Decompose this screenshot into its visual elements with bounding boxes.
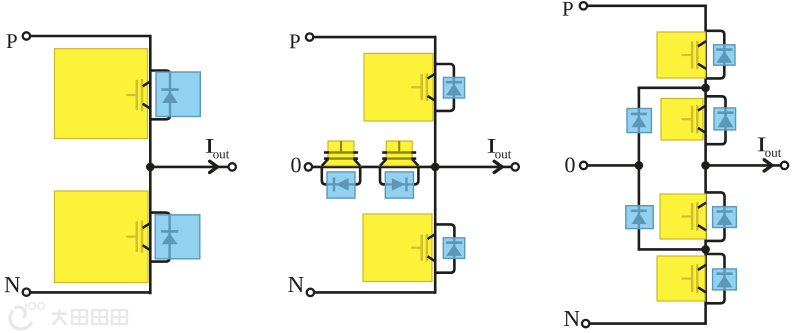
node clamp junction (right circuit) <box>635 161 644 170</box>
wire main vertical leg (left circuit) <box>149 35 152 295</box>
diode bracket D7 (right circuit) <box>706 31 725 79</box>
node N terminal label (right circuit) <box>564 311 579 326</box>
node junction Q9/Q10 (right circuit) <box>701 245 710 254</box>
terminal 0 (middle circuit) <box>305 163 312 170</box>
IGBT module Q9 yellow box (right circuit) <box>660 194 706 239</box>
diode bracket D6 (middle circuit) <box>380 167 418 185</box>
watermark logo (decorative) <box>10 303 127 329</box>
clamp diode D6 blue box (middle circuit) <box>385 172 413 198</box>
anti-parallel diode D9 blue box (right circuit) <box>713 207 737 228</box>
IGBT module Q8 yellow box (right circuit) <box>661 99 706 141</box>
clamp IGBT Q5 horizontal (middle circuit) <box>380 141 418 166</box>
output arrow head (right circuit) <box>764 160 772 171</box>
node output junction (right circuit) <box>701 161 710 170</box>
IGBT module Q2 yellow box (left circuit) <box>55 191 151 283</box>
terminal Iout (right circuit) <box>781 162 788 169</box>
IGBT module Q10 yellow box (right circuit) <box>657 256 706 301</box>
wire clamp branch lower (right circuit) <box>638 164 706 249</box>
wire main vertical leg (middle circuit) <box>434 36 437 294</box>
wire main vertical leg (right circuit) <box>704 5 707 325</box>
anti-parallel diode D8 blue box (right circuit) <box>714 108 736 130</box>
diode bracket D9 (right circuit) <box>706 192 725 241</box>
terminal N (left circuit) <box>23 289 30 296</box>
wire N rail (left circuit) <box>30 291 150 294</box>
clamp diode D11 blue box (right circuit) <box>627 109 651 133</box>
terminal 0 (right circuit) <box>580 162 587 169</box>
node N terminal label (left circuit) <box>5 277 20 292</box>
IGBT module Q1 yellow box (left circuit) <box>55 49 151 139</box>
wire N rail (middle circuit) <box>314 291 435 294</box>
anti-parallel diode D7 blue box (right circuit) <box>714 45 735 65</box>
label Iout (left circuit) <box>206 139 230 158</box>
wire output (middle circuit) <box>435 166 512 169</box>
terminal Iout (middle circuit) <box>512 163 519 170</box>
clamp diode D12 blue box (right circuit) <box>626 206 653 229</box>
label Iout (middle circuit) <box>488 139 512 158</box>
node output junction (middle circuit) <box>431 163 440 172</box>
node P terminal label (middle circuit) <box>290 34 300 48</box>
wire P rail to top (right circuit) <box>587 5 706 8</box>
wire output (left circuit) <box>150 166 228 169</box>
diode bracket D10 (right circuit) <box>706 254 725 303</box>
anti-parallel diode D10 blue box (right circuit) <box>713 269 737 290</box>
node P terminal label (right circuit) <box>563 2 573 16</box>
terminal N (right circuit) <box>582 320 589 327</box>
IGBT module Q7 yellow box (right circuit) <box>657 32 706 78</box>
diode bracket D1 (left circuit) <box>150 71 170 120</box>
terminal P (right circuit) <box>580 2 587 9</box>
diode bracket D3 (middle circuit) <box>435 64 454 111</box>
diode bracket D2 (left circuit) <box>150 213 169 262</box>
wire P rail to top (left circuit) <box>30 35 150 38</box>
clamp diode D5 blue box (middle circuit) <box>327 172 355 198</box>
node junction Q7/Q8 (right circuit) <box>701 84 710 93</box>
terminal N (middle circuit) <box>307 289 314 296</box>
terminal P (left circuit) <box>23 32 30 39</box>
IGBT module Q3 yellow box (middle circuit) <box>364 53 436 121</box>
terminal Iout (left circuit) <box>229 163 236 170</box>
node 0 terminal label (right circuit) <box>565 157 574 172</box>
wire clamp branch upper (right circuit) <box>638 87 706 167</box>
diode bracket D4 (middle circuit) <box>435 224 454 272</box>
wire 0 rail (middle circuit) <box>312 166 435 169</box>
label Iout (right circuit) <box>758 138 782 157</box>
node N terminal label (middle circuit) <box>288 277 303 292</box>
wire N rail (right circuit) <box>589 322 705 325</box>
output arrow head (left circuit) <box>210 161 218 172</box>
terminal P (middle circuit) <box>306 33 313 40</box>
diode bracket D5 (middle circuit) <box>322 167 360 185</box>
node P terminal label (left circuit) <box>7 34 17 48</box>
IGBT module Q6 yellow box (middle circuit) <box>363 214 436 282</box>
clamp IGBT Q4 horizontal (middle circuit) <box>322 141 360 166</box>
output arrow head (middle circuit) <box>494 161 502 172</box>
node 0 terminal label (middle circuit) <box>291 158 300 173</box>
wire P rail to top (middle circuit) <box>313 36 435 39</box>
anti-parallel diode D2 blue box (left circuit) <box>155 215 200 259</box>
node output junction (left circuit) <box>146 163 155 172</box>
wire output (right circuit) <box>706 164 782 167</box>
anti-parallel diode D3 blue box (middle circuit) <box>443 77 464 98</box>
wire 0 rail (right circuit) <box>587 164 639 167</box>
anti-parallel diode D4 blue box (middle circuit) <box>443 238 464 259</box>
diode bracket D8 (right circuit) <box>706 96 726 144</box>
anti-parallel diode D1 blue box (left circuit) <box>156 72 200 117</box>
